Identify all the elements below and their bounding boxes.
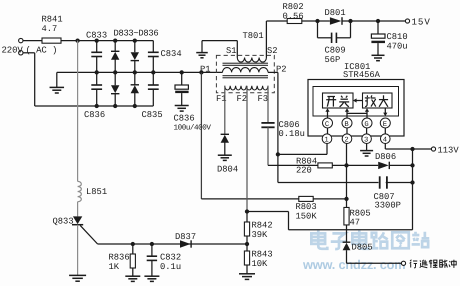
wire: R805 to D805	[346, 225, 348, 242]
svg-text:220: 220	[296, 166, 312, 176]
capacitor C832	[147, 244, 181, 276]
svg-text:470u: 470u	[387, 42, 408, 52]
wire: sampling line to 113V rail	[247, 212, 413, 230]
ground at IC pin 3	[360, 144, 373, 157]
resistor R805	[344, 207, 371, 227]
svg-text:L851: L851	[86, 187, 107, 197]
junction mid rail / C833-C836	[95, 70, 99, 74]
transformer core lines lower	[223, 76, 269, 78]
svg-text:D805: D805	[352, 243, 373, 253]
junction R842/R843/D837	[245, 242, 249, 246]
svg-text:4: 4	[383, 137, 387, 145]
wire: B riser arrow	[345, 108, 349, 118]
svg-text:C832: C832	[160, 253, 181, 263]
svg-text:15V: 15V	[412, 17, 431, 28]
svg-text:( AC ): ( AC )	[26, 46, 58, 56]
label F1	[216, 94, 227, 104]
junction 113V rail top	[410, 147, 414, 151]
capacitor C807	[374, 176, 401, 210]
wire: F1 stub down to D804	[224, 86, 226, 135]
wire: Q833 cathode to ground	[77, 225, 79, 276]
inductor L851	[78, 181, 108, 201]
wire: pin4 to 113V terminal	[385, 144, 431, 150]
svg-text:1: 1	[324, 137, 328, 145]
svg-text:C810: C810	[387, 32, 408, 42]
terminal 113V	[431, 146, 459, 156]
text fang da (amplify)	[365, 95, 388, 107]
wire: top rail from R841 to C834 column	[61, 40, 153, 42]
terminal 220V AC top	[19, 38, 23, 42]
ground at S1	[196, 53, 208, 58]
ground below C836 electrolytic	[175, 106, 189, 112]
wire: F2 stub down to R842 junction	[246, 86, 248, 212]
svg-text:0.18u: 0.18u	[279, 129, 305, 139]
text kai guan (switch)	[326, 96, 349, 107]
resistor R841	[42, 15, 63, 44]
svg-text:C836: C836	[84, 110, 105, 120]
winding F1-F2-F3	[225, 86, 268, 90]
svg-text:10K: 10K	[252, 259, 269, 269]
svg-text:1K: 1K	[109, 262, 120, 272]
svg-text:C834: C834	[161, 49, 182, 59]
junction C809 right	[348, 19, 352, 23]
IC801 electrode circle B	[342, 118, 352, 129]
svg-text:B: B	[344, 121, 349, 129]
IC801 pin 1	[322, 134, 332, 145]
junction 113V rail / C807	[410, 180, 414, 184]
ground at mid rail left	[50, 72, 65, 93]
wire: pin2 vertical down	[346, 144, 348, 208]
svg-text:R841: R841	[42, 15, 63, 25]
junction P2 vertical / pin1	[276, 152, 280, 156]
capacitor C835	[142, 72, 163, 120]
svg-text:T801: T801	[243, 31, 264, 41]
diode D801	[325, 8, 346, 25]
svg-text:4.7: 4.7	[42, 24, 58, 34]
svg-text:220V: 220V	[2, 46, 24, 56]
IC801 pin 2	[342, 134, 352, 145]
resistor R804	[296, 157, 332, 176]
wire: electrode to pin links	[328, 128, 386, 134]
terminal 15V	[405, 17, 430, 28]
arrow amp to switch	[353, 98, 363, 102]
svg-text:3: 3	[364, 137, 368, 145]
svg-text:3300P: 3300P	[375, 201, 401, 211]
wire: AC bottom lead to bottom rail	[23, 53, 35, 106]
capacitor C836 (ceramic, lower-left of bridge)	[84, 72, 105, 120]
svg-text:47: 47	[350, 218, 361, 228]
IC801 pin 4	[381, 134, 391, 145]
svg-text:D837: D837	[175, 232, 196, 242]
capacitor C836 100u/400V (main electrolytic)	[174, 72, 212, 132]
wire: R803 right lead	[313, 198, 346, 200]
wire: L851 to Q833	[77, 202, 79, 217]
diode D835 (lower left of bridge, points down)	[111, 72, 119, 106]
ground below C832	[144, 276, 159, 281]
wire: R802 to D801	[302, 20, 330, 22]
IC801 amp block (fang da)	[363, 93, 393, 108]
label S2	[267, 46, 278, 56]
wire: bottom rail	[35, 105, 154, 107]
transformer T801 dashed box	[216, 31, 274, 93]
label F2	[237, 94, 248, 104]
junction bottom rail / D836	[133, 104, 137, 108]
svg-text:E: E	[383, 121, 387, 129]
label: horizontal retrace pulse (hanzi)	[410, 260, 457, 268]
junction top rail / D833 column	[113, 38, 117, 42]
capacitor C833	[86, 31, 107, 73]
IC U801 labels	[343, 62, 381, 80]
wire: C807 to 113V rail	[386, 182, 413, 184]
junction top rail / D834 column	[133, 38, 137, 42]
ground below D804	[218, 155, 232, 160]
svg-text:D801: D801	[325, 8, 346, 18]
label P1	[200, 65, 211, 75]
resistor R842	[244, 212, 272, 245]
terminal retrace pulse	[401, 261, 405, 265]
wire: top rail down to L851 (gray line)	[77, 41, 79, 182]
svg-text:C835: C835	[142, 110, 163, 120]
diode D805 (points up)	[343, 242, 373, 252]
resistor R803	[296, 196, 318, 221]
svg-text:113V: 113V	[438, 146, 460, 156]
watermark: site name hanzi	[311, 230, 429, 249]
wire: C riser arrow	[325, 108, 329, 118]
winding P1-P2	[223, 68, 269, 73]
resistor R836	[109, 244, 136, 276]
wire: G riser arrow	[365, 108, 369, 118]
svg-text:C: C	[325, 121, 330, 129]
svg-text:39K: 39K	[252, 230, 269, 240]
resistor R843	[244, 244, 272, 274]
junction R804 / pin2 vertical	[344, 163, 348, 167]
svg-text:2: 2	[344, 137, 348, 145]
capacitor C809 (parallel with D801)	[318, 21, 351, 65]
thyristor Q833	[53, 216, 84, 226]
svg-text:150K: 150K	[296, 212, 318, 222]
diode D804 (points up)	[217, 134, 238, 174]
junction mid rail / C836 electrolytic	[180, 70, 184, 74]
svg-text:S1: S1	[226, 46, 237, 56]
svg-text:www. cndzz. com: www. cndzz. com	[302, 257, 405, 272]
diode D836 (lower right of bridge, points up)	[131, 72, 139, 106]
junction pin2 vertical / R803	[344, 197, 348, 201]
svg-text:R803: R803	[296, 202, 317, 212]
svg-text:C833: C833	[86, 31, 107, 41]
IC801 switch block (kai guan)	[323, 93, 354, 108]
junction bottom rail / C836 ceramic	[95, 104, 99, 108]
wire: F3 stub to C806	[267, 86, 269, 123]
IC801 pin 3	[362, 134, 372, 145]
junction gate line / R836	[131, 242, 135, 246]
wire: D801 to 15V terminal	[343, 20, 406, 22]
transformer core lines upper	[223, 63, 269, 65]
label S1	[226, 46, 237, 56]
junction mid rail / D834-D836	[133, 70, 137, 74]
svg-text:G: G	[364, 121, 368, 129]
svg-text:56P: 56P	[325, 55, 341, 65]
diode D834 (upper right of bridge, points down)	[131, 41, 139, 73]
label F3	[258, 94, 269, 104]
label 220V(AC)	[2, 46, 58, 56]
svg-text:S2: S2	[267, 46, 278, 56]
svg-text:D806: D806	[375, 152, 396, 162]
wire: C806 down and right to R804	[268, 127, 318, 165]
junction top rail / L851 line	[75, 38, 79, 42]
svg-text:STR456A: STR456A	[343, 70, 381, 80]
junction bottom rail / D835	[113, 104, 117, 108]
wire: P2 riser down (feedback node)	[268, 72, 278, 182]
capacitor C834	[148, 41, 182, 73]
junction gate line / C832	[150, 242, 154, 246]
wire: AC mains top lead	[23, 40, 42, 42]
junction top rail / C833	[95, 38, 99, 42]
svg-text:C809: C809	[325, 46, 346, 56]
watermark: www.cndzz.com	[302, 257, 405, 272]
diode D806	[375, 152, 396, 169]
wire: P2 vertical to C807	[278, 182, 379, 184]
junction mid rail / D833-D835	[113, 70, 117, 74]
wire: P1 node down to R803 (startup)	[201, 72, 298, 198]
svg-text:F3: F3	[258, 94, 269, 104]
svg-text:D804: D804	[217, 165, 238, 175]
IC801 electrode circle C	[323, 118, 333, 129]
wire: Q833 gate diagonal	[80, 225, 97, 244]
IC801 inner box	[313, 87, 399, 117]
ground below R843	[239, 274, 255, 280]
junction C810	[376, 19, 380, 23]
junction mid rail / C834-C835	[151, 70, 155, 74]
capacitor C806	[261, 120, 305, 139]
op-amp U IC801 outer box	[308, 80, 404, 137]
junction R842 top / sampling line	[245, 209, 249, 213]
svg-text:R843: R843	[252, 250, 273, 260]
wire: pin1 to P2 vertical	[278, 143, 327, 154]
svg-text:0.1u: 0.1u	[160, 262, 181, 272]
IC801 electrode circle E	[380, 118, 390, 129]
wire: E riser arrow down	[383, 108, 387, 116]
wire: R804 to D806	[332, 164, 378, 166]
ground below Q833	[69, 275, 86, 281]
wire: 113V rail vertical	[412, 149, 414, 230]
terminal 220V AC bottom	[19, 51, 23, 55]
ground below C810	[372, 55, 385, 60]
winding S1-S2	[237, 58, 266, 63]
wire: D805 to retrace pulse terminal	[347, 250, 402, 263]
resistor R802	[283, 2, 304, 24]
svg-text:Q833: Q833	[53, 217, 74, 227]
wire: main DC bus (mid rail) to transformer P1	[57, 71, 223, 73]
svg-text:F2: F2	[237, 94, 248, 104]
ground below R836	[125, 276, 140, 281]
wire: S2 riser to R802	[266, 21, 287, 58]
svg-text:100u/400V: 100u/400V	[174, 124, 212, 133]
diode D837	[175, 232, 196, 248]
label P2	[276, 65, 287, 75]
capacitor C810 (electrolytic)	[371, 21, 407, 55]
svg-text:C836: C836	[174, 114, 195, 124]
diode D833 (upper left of bridge, points up)	[111, 41, 119, 73]
junction C809 left	[315, 19, 319, 23]
svg-text:R836: R836	[109, 253, 130, 263]
junction 113V rail / D806	[410, 163, 414, 167]
wire: gate line to R842/R843 junction	[98, 243, 247, 245]
svg-text:R842: R842	[252, 221, 273, 231]
label D833~D836	[114, 29, 159, 39]
wire: S1 to ground hook	[202, 41, 237, 58]
wire: B-G jog	[347, 112, 367, 114]
wire: D806 cathode to 113V rail	[389, 164, 412, 166]
svg-text:D833~D836: D833~D836	[114, 29, 159, 39]
IC801 electrode circle G	[362, 118, 372, 129]
junction mid rail / P1 startup dropper	[199, 70, 203, 74]
svg-text:0.56: 0.56	[283, 11, 304, 21]
